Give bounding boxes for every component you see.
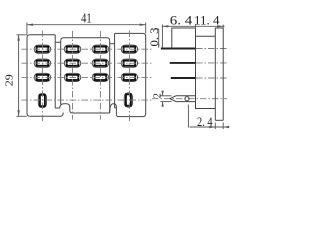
svg-text:2. 4: 2. 4: [197, 115, 213, 129]
svg-text:41: 41: [81, 12, 92, 27]
svg-text:29: 29: [3, 74, 15, 87]
svg-text:6. 4: 6. 4: [170, 12, 193, 27]
svg-text:0. 3: 0. 3: [147, 28, 161, 47]
svg-text:11. 4: 11. 4: [194, 13, 220, 27]
svg-text:2: 2: [153, 93, 164, 98]
